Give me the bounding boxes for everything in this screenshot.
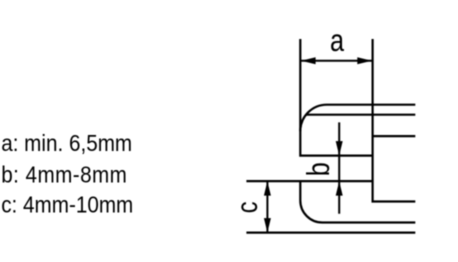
svg-text:b: 4mm-8mm: b: 4mm-8mm [1, 161, 127, 188]
svg-text:a: a [330, 23, 344, 58]
svg-text:a: min. 6,5mm: a: min. 6,5mm [1, 130, 132, 157]
svg-text:c: c [231, 201, 264, 213]
svg-text:c: 4mm-10mm: c: 4mm-10mm [1, 191, 133, 218]
svg-text:b: b [301, 162, 336, 176]
